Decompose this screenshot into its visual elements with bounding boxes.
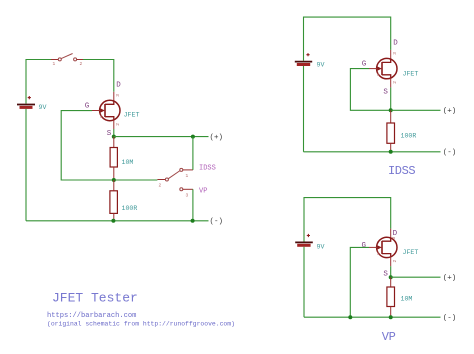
wire: source down to S node — [113, 129, 115, 137]
svg-text:G: G — [362, 60, 367, 68]
node: VP resistor bottom junction — [389, 315, 393, 319]
resistor R4 top pin — [390, 277, 392, 287]
wire: VP bottom rail — [304, 316, 441, 318]
JFET Q2 source pin — [390, 78, 392, 88]
switch SW1 pin1 stub — [51, 59, 58, 61]
JFET Q1 gate pin — [92, 110, 100, 112]
svg-text:3: 3 — [115, 94, 121, 97]
wire: throw 3 down to (-) rail — [192, 189, 194, 221]
svg-text:2: 2 — [392, 81, 398, 84]
node: S junction — [112, 135, 116, 139]
battery BT2 bottom plate — [297, 63, 310, 66]
svg-text:2: 2 — [159, 183, 162, 189]
svg-text:9V: 9V — [39, 104, 47, 111]
resistor R2 top pin — [113, 180, 115, 191]
switch SW2 throw 3 contact — [180, 188, 183, 191]
wire: IDSS bottom rail — [304, 151, 441, 153]
wire: S rail to (+) — [114, 136, 209, 138]
battery BT1 bottom plate — [20, 106, 33, 109]
switch SW2 throw 1 contact — [180, 168, 183, 171]
svg-text:(+): (+) — [443, 274, 457, 282]
svg-text:(-): (-) — [210, 218, 224, 226]
svg-text:10M: 10M — [122, 159, 134, 166]
wire: battery - down left rail — [25, 109, 27, 221]
svg-text:IDSS: IDSS — [388, 164, 415, 178]
svg-text:1: 1 — [53, 61, 56, 67]
node: divider mid junction — [112, 178, 116, 182]
switch SW2 common contact — [165, 178, 168, 181]
svg-text:S: S — [383, 270, 388, 278]
svg-text:100R: 100R — [122, 205, 138, 212]
battery BT1 top plate — [17, 104, 35, 106]
wire: IDSS S rail to (+) — [391, 109, 441, 111]
wire: left rail top (battery + up to top rail) — [26, 60, 51, 104]
switch SW2 lever — [168, 171, 180, 179]
wire: Q3 source down — [390, 266, 392, 277]
resistor R1 top pin — [113, 137, 115, 148]
battery BT2 top plate — [295, 61, 312, 63]
svg-text:S: S — [107, 130, 112, 138]
svg-text:2: 2 — [80, 61, 83, 67]
svg-text:VP: VP — [199, 187, 207, 195]
wire: BT3 minus down — [303, 247, 305, 318]
switch SW2 common pin stub — [157, 179, 165, 181]
resistor R4 body — [387, 287, 395, 307]
svg-text:S: S — [383, 89, 388, 97]
battery BT3 top plate — [295, 241, 313, 243]
svg-text:(original schematic from http:: (original schematic from http://runoffgr… — [47, 320, 235, 327]
JFET Q3 source pin — [390, 257, 392, 267]
svg-text:D: D — [393, 40, 398, 48]
wire: Q2 source down — [390, 87, 392, 110]
switch SW1 contact 2 — [74, 58, 77, 61]
JFET Q1 source pin — [113, 120, 115, 129]
node: VP gate bottom junction — [348, 315, 352, 319]
switch SW1 contact 1 — [58, 58, 61, 61]
resistor R1 body — [110, 148, 117, 168]
node: IDSS bottom junction — [389, 150, 393, 154]
wire: gate drop (gate to divider node) — [61, 111, 157, 180]
wire: VP S rail to (+) — [391, 276, 441, 278]
wire: Q3 gate tied to bottom rail — [350, 247, 369, 317]
JFET Q1 drain pin — [113, 92, 115, 102]
resistor R2 bottom pin — [113, 213, 115, 220]
svg-text:JFET: JFET — [124, 112, 140, 119]
JFET Q1 body — [100, 100, 120, 120]
node: 100R bottom junction — [111, 219, 115, 223]
battery BT2 plus sign — [306, 53, 309, 56]
svg-text:1: 1 — [100, 114, 103, 120]
node: IDSS S junction — [389, 108, 393, 112]
svg-text:3: 3 — [392, 52, 398, 55]
JFET Q2 drain pin — [390, 50, 392, 60]
svg-text:VP: VP — [382, 330, 396, 344]
svg-text:G: G — [362, 242, 367, 250]
svg-text:JFET Tester: JFET Tester — [52, 291, 138, 306]
wire: bottom (-) rail — [26, 220, 209, 222]
svg-text:2: 2 — [115, 123, 121, 126]
resistor R3 body — [387, 123, 395, 143]
node: VP tap bottom junction — [191, 219, 195, 223]
JFET Q2 body — [377, 58, 397, 78]
switch SW1 pin2 stub — [77, 59, 83, 61]
svg-text:1: 1 — [377, 250, 380, 256]
svg-text:3: 3 — [186, 193, 189, 199]
resistor R2 body — [110, 191, 118, 214]
JFET Q2 gate pin — [369, 68, 377, 70]
svg-text:IDSS: IDSS — [199, 164, 216, 172]
svg-text:(-): (-) — [443, 314, 457, 322]
JFET Q3 drain pin — [390, 229, 392, 239]
node: S rail / IDSS tap junction — [191, 135, 195, 139]
resistor R3 bottom pin — [390, 143, 392, 152]
svg-text:1: 1 — [186, 173, 189, 179]
svg-text:9V: 9V — [317, 61, 325, 68]
battery BT1 plus sign — [28, 96, 31, 99]
switch SW2 throw 1 stub — [183, 169, 193, 171]
svg-text:JFET: JFET — [403, 249, 419, 256]
resistor R1 bottom pin — [113, 167, 115, 180]
svg-text:9V: 9V — [317, 244, 325, 251]
svg-text:D: D — [393, 230, 398, 238]
wire: Q2 gate tied to source rail — [350, 69, 390, 111]
JFET Q3 body — [377, 237, 397, 257]
resistor R4 bottom pin — [390, 307, 392, 318]
svg-text:G: G — [85, 102, 90, 110]
svg-text:https://barbarach.com: https://barbarach.com — [47, 312, 136, 320]
wire: BT2 minus down — [303, 66, 305, 152]
svg-text:(+): (+) — [210, 134, 224, 142]
JFET Q3 gate pin — [369, 246, 377, 248]
battery BT3 bottom plate — [297, 244, 310, 247]
svg-text:100R: 100R — [401, 132, 417, 139]
svg-text:1: 1 — [377, 72, 380, 78]
wire: VP top rail — [304, 198, 391, 242]
wire: (+) rail down to throw 1 — [192, 137, 194, 170]
switch SW2 throw 3 stub — [183, 188, 193, 190]
switch SW1 lever — [61, 54, 72, 59]
svg-text:(-): (-) — [443, 149, 457, 157]
svg-text:JFET: JFET — [403, 70, 419, 77]
wire: SW1 to drain corner — [83, 60, 114, 92]
battery BT3 plus sign — [307, 234, 310, 237]
resistor R3 top pin — [390, 110, 392, 123]
svg-text:D: D — [116, 82, 121, 90]
svg-text:10M: 10M — [401, 295, 413, 302]
wire: IDSS top rail — [304, 17, 391, 61]
svg-text:(+): (+) — [443, 108, 457, 116]
svg-text:2: 2 — [392, 259, 398, 262]
node: VP S junction — [389, 275, 393, 279]
